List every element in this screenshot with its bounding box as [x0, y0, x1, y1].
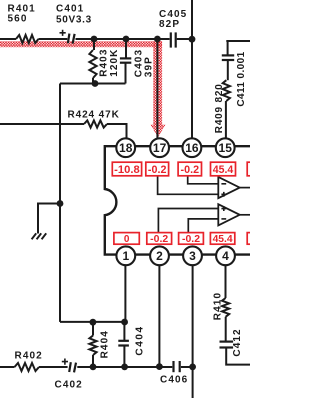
- svg-text:15: 15: [219, 141, 233, 155]
- svg-text:R424 47K: R424 47K: [68, 109, 120, 120]
- svg-text:-0.2: -0.2: [150, 234, 168, 245]
- svg-text:-0.2: -0.2: [182, 234, 200, 245]
- svg-text:C411 0.001: C411 0.001: [236, 51, 247, 106]
- svg-text:82P: 82P: [159, 19, 180, 30]
- svg-text:R402: R402: [15, 350, 43, 361]
- svg-text:R404: R404: [100, 330, 111, 358]
- svg-text:R403: R403: [98, 48, 109, 76]
- svg-text:1: 1: [122, 249, 129, 263]
- svg-text:560: 560: [8, 13, 28, 24]
- svg-text:17: 17: [153, 141, 167, 155]
- svg-text:R410: R410: [212, 292, 223, 320]
- svg-text:-0.2: -0.2: [148, 164, 167, 176]
- svg-text:50V3.3: 50V3.3: [56, 14, 92, 25]
- svg-text:3: 3: [189, 249, 196, 263]
- svg-text:C402: C402: [55, 379, 83, 390]
- svg-text:C406: C406: [160, 374, 188, 385]
- svg-text:C404: C404: [135, 325, 146, 355]
- svg-text:2: 2: [156, 249, 163, 263]
- svg-text:120K: 120K: [109, 48, 120, 76]
- svg-text:16: 16: [185, 141, 199, 155]
- svg-text:C412: C412: [232, 328, 243, 356]
- svg-text:-0.2: -0.2: [181, 164, 200, 176]
- svg-text:C401: C401: [56, 3, 84, 14]
- svg-text:-10.8: -10.8: [114, 164, 140, 176]
- svg-text:0: 0: [124, 234, 130, 245]
- svg-text:45.4: 45.4: [213, 164, 234, 176]
- svg-text:45.4: 45.4: [213, 234, 233, 245]
- svg-text:R409 820: R409 820: [214, 83, 225, 133]
- svg-text:4: 4: [222, 249, 229, 263]
- svg-text:18: 18: [119, 141, 133, 155]
- svg-text:39P: 39P: [143, 56, 154, 77]
